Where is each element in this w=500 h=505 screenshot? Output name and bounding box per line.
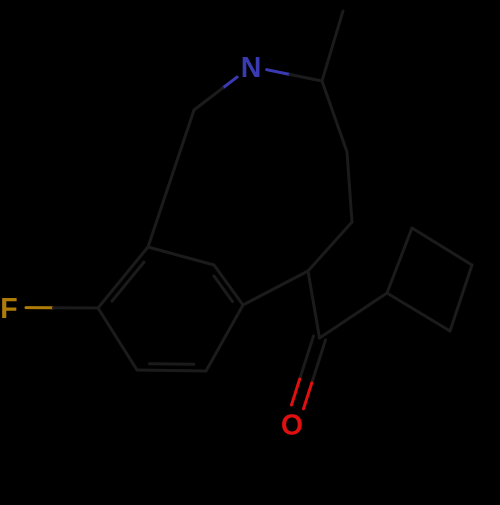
benzene edge L1-L2 <box>98 247 148 308</box>
bond C1-C3 <box>148 110 194 247</box>
aromatic inner L3-L4 <box>214 276 233 302</box>
aromatic inner L1-L2 <box>112 262 144 301</box>
bond N-C2 C-half <box>290 75 322 82</box>
cyclobutane edge Q3-Q4 <box>450 265 472 331</box>
benzene edge L3-L4 <box>214 265 243 305</box>
bond N-C1 N-half blue <box>223 77 238 88</box>
bond C2-C4 <box>322 81 347 152</box>
svg-text:N: N <box>241 52 262 84</box>
bond C6-C7carbonyl <box>308 271 320 338</box>
benzene edge L6-L1 <box>98 308 137 370</box>
bond C5-C6 <box>308 222 352 271</box>
cyclobutane edge Q4-Q1 <box>387 293 450 331</box>
benzene edge L5-L6 <box>137 370 206 371</box>
bond N-C2 N-half blue <box>267 70 290 75</box>
benzene edge L2-L3 <box>148 247 214 265</box>
C=O line1 O-half red <box>292 379 300 405</box>
C=O line2 O-half red <box>304 383 312 409</box>
bond C2-CH3 stub <box>322 11 343 81</box>
C=O line2 C-half <box>312 340 326 383</box>
svg-text:F: F <box>0 293 17 325</box>
svg-text:O: O <box>281 409 303 441</box>
bond F-L1 F-half orange <box>26 306 54 309</box>
cyclobutane edge Q2-Q3 <box>412 228 472 265</box>
benzene edge L4-L5 <box>206 305 243 371</box>
bond C6-ringL4 <box>243 271 308 305</box>
bond N-C1 C-half <box>194 88 223 110</box>
bond F-L1 C-half <box>54 306 99 309</box>
aromatic inner L5-L6 <box>150 362 194 366</box>
cyclobutane edge Q1-Q2 <box>387 228 412 293</box>
bond C4-C5 <box>347 152 352 222</box>
C=O line1 C-half <box>300 336 314 379</box>
bond C7-Q1 <box>320 293 388 338</box>
